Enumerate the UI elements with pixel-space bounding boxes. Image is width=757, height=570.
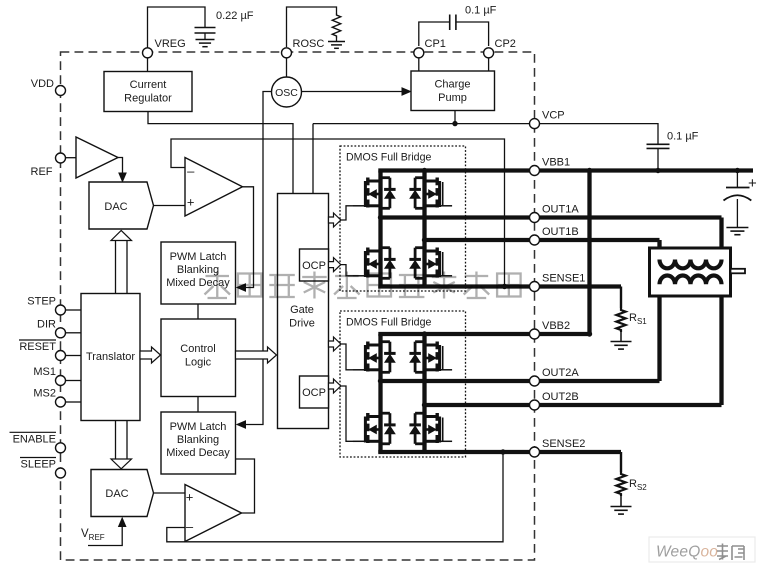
svg-text:Drive: Drive <box>289 318 315 330</box>
svg-text:OCP: OCP <box>302 260 326 272</box>
svg-text:–: – <box>186 519 194 534</box>
svg-text:ROSC: ROSC <box>293 38 325 50</box>
svg-text:Gate: Gate <box>290 304 314 316</box>
svg-text:OUT2B: OUT2B <box>542 391 579 403</box>
svg-text:PWM Latch: PWM Latch <box>170 421 227 433</box>
svg-text:DMOS Full Bridge: DMOS Full Bridge <box>346 152 431 164</box>
svg-text:Blanking: Blanking <box>177 264 219 276</box>
svg-text:OSC: OSC <box>275 87 298 99</box>
svg-text:STEP: STEP <box>27 296 56 308</box>
svg-text:+: + <box>186 490 194 505</box>
svg-text:VBB1: VBB1 <box>542 157 570 169</box>
svg-text:0.22 µF: 0.22 µF <box>216 10 254 22</box>
svg-text:0.1 µF: 0.1 µF <box>465 5 497 17</box>
svg-text:CP2: CP2 <box>495 38 516 50</box>
svg-text:ENABLE: ENABLE <box>13 433 56 445</box>
svg-text:DAC: DAC <box>104 201 127 213</box>
svg-text:0.1 µF: 0.1 µF <box>667 131 699 143</box>
svg-text:MS1: MS1 <box>33 366 56 378</box>
svg-text:+: + <box>748 175 757 192</box>
svg-text:Pump: Pump <box>438 92 467 104</box>
svg-text:Regulator: Regulator <box>124 93 172 105</box>
svg-text:Charge: Charge <box>434 79 470 91</box>
svg-text:Current: Current <box>130 79 167 91</box>
svg-text:PWM Latch: PWM Latch <box>170 251 227 263</box>
svg-text:Mixed Decay: Mixed Decay <box>166 447 230 459</box>
svg-text:DMOS Full Bridge: DMOS Full Bridge <box>346 317 431 329</box>
svg-text:VBB2: VBB2 <box>542 320 570 332</box>
svg-text:OCP: OCP <box>302 387 326 399</box>
svg-text:–: – <box>187 164 195 179</box>
svg-text:RESET: RESET <box>19 341 56 353</box>
svg-text:CP1: CP1 <box>425 38 446 50</box>
svg-text:Translator: Translator <box>86 351 135 363</box>
svg-text:VCP: VCP <box>542 110 565 122</box>
svg-text:SLEEP: SLEEP <box>21 459 56 471</box>
svg-text:DIR: DIR <box>37 318 56 330</box>
svg-text:SENSE1: SENSE1 <box>542 273 585 285</box>
svg-text:VREG: VREG <box>155 38 186 50</box>
svg-text:Logic: Logic <box>185 357 212 369</box>
svg-text:+: + <box>187 195 195 210</box>
svg-text:DAC: DAC <box>105 488 128 500</box>
svg-text:WeeQoo: WeeQoo <box>656 544 718 561</box>
svg-text:REF: REF <box>31 166 53 178</box>
svg-text:VDD: VDD <box>31 78 54 90</box>
svg-text:SENSE2: SENSE2 <box>542 438 585 450</box>
svg-text:MS2: MS2 <box>33 388 56 400</box>
svg-text:OUT2A: OUT2A <box>542 367 579 379</box>
svg-text:Control: Control <box>180 343 215 355</box>
svg-text:Blanking: Blanking <box>177 434 219 446</box>
svg-text:OUT1A: OUT1A <box>542 204 579 216</box>
svg-text:OUT1B: OUT1B <box>542 226 579 238</box>
